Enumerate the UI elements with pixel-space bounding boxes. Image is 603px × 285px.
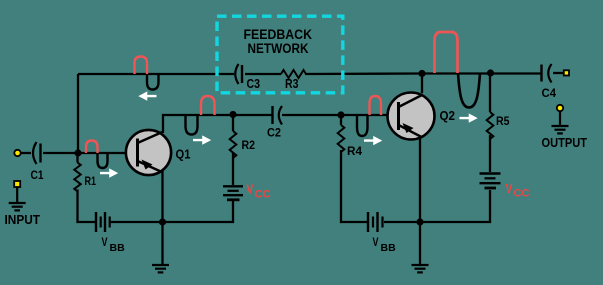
terminal: input lower terminal xyxy=(14,181,20,187)
arrow: signal direction after Q2 xyxy=(460,113,478,122)
waveform: Q1 base signal (red half-cycle) xyxy=(86,141,98,154)
battery VCC stage2 xyxy=(480,174,501,189)
svg-text:CC: CC xyxy=(514,188,530,200)
wire: middle wire Q1 collector to C2 xyxy=(163,115,272,133)
svg-text:INPUT: INPUT xyxy=(5,213,41,227)
waveform: feedback signal (red half-cycle) xyxy=(135,57,148,75)
wire: R5 top vertical from output wire xyxy=(489,73,491,112)
waveform: Q1 output signal (red half-cycle) xyxy=(201,96,215,115)
wire: C4 to output terminal xyxy=(553,72,565,74)
svg-text:Q1: Q1 xyxy=(176,148,191,162)
feedback network dashed box xyxy=(217,16,343,93)
node: R5 junction dot on output wire xyxy=(487,69,494,76)
svg-text:R3: R3 xyxy=(285,77,299,91)
transistor Q2 xyxy=(388,93,435,140)
node: Q2 collector junction dot xyxy=(418,70,425,77)
transistor Q1 xyxy=(126,130,171,175)
svg-text:C1: C1 xyxy=(31,168,44,182)
svg-text:R5: R5 xyxy=(496,114,510,128)
svg-text:V: V xyxy=(247,183,254,197)
svg-text:V: V xyxy=(506,182,513,196)
arrow: signal direction after Q1 xyxy=(193,135,211,144)
resistor R1 xyxy=(74,163,80,192)
wire: R4 bottom down to stage2 bottom rail to VBB2 xyxy=(341,150,368,222)
capacitor C2 xyxy=(273,106,283,125)
battery VCC stage1 xyxy=(223,186,243,200)
ground: input ground xyxy=(9,187,26,210)
battery VBB stage1 xyxy=(96,212,110,232)
waveform: Q2 base signal (black half-cycle) xyxy=(357,115,368,136)
wire: stage1 bottom rail R1 side to VBB xyxy=(78,153,97,222)
svg-text:Q2: Q2 xyxy=(440,109,456,123)
terminal: output upper terminal xyxy=(564,70,569,75)
svg-text:R1: R1 xyxy=(85,176,97,188)
svg-text:FEEDBACK: FEEDBACK xyxy=(244,27,313,42)
node: stage2 emitter-ground junction dot xyxy=(416,218,423,225)
svg-text:V: V xyxy=(373,235,379,249)
capacitor C1 xyxy=(33,142,41,164)
terminal: input upper terminal xyxy=(14,150,20,156)
battery VBB stage2 xyxy=(368,212,383,232)
waveform: Q1 output signal inverted (black half-cycle) xyxy=(186,115,198,135)
waveform: output signal (red half-cycle) xyxy=(435,32,458,73)
arrow: signal direction into Q2 xyxy=(364,136,382,145)
svg-text:R4: R4 xyxy=(347,146,363,158)
node: R2 junction dot on middle wire xyxy=(229,111,236,118)
resistor R3 xyxy=(281,70,306,78)
wire: Q2 collector vertical up to feedback node xyxy=(421,74,423,94)
wire: R4 top vertical from middle wire xyxy=(340,115,342,125)
svg-text:C2: C2 xyxy=(267,126,281,140)
arrow: feedback direction (leftward) xyxy=(138,91,156,100)
ground: output ground xyxy=(552,111,569,133)
svg-text:C4: C4 xyxy=(542,88,557,100)
svg-text:CC: CC xyxy=(255,189,271,201)
arrow: signal direction into Q1 xyxy=(100,168,118,177)
svg-text:V: V xyxy=(102,235,108,249)
svg-text:BB: BB xyxy=(110,242,126,254)
node: R4 junction dot on middle wire xyxy=(337,111,344,118)
ground: stage1 ground xyxy=(152,222,169,272)
wire: left vertical from feedback wire down to input node xyxy=(77,74,79,153)
resistor R2 xyxy=(230,131,237,158)
capacitor C4 xyxy=(542,64,552,83)
wire: stage1 bottom rail VBB to VCC bottom xyxy=(110,201,233,222)
waveform: output signal (black half-cycle) xyxy=(458,73,480,108)
svg-text:C3: C3 xyxy=(247,77,261,91)
waveform: feedback signal (black half-cycle) xyxy=(147,74,159,90)
wire: middle wire C2 to Q2 base xyxy=(282,114,398,116)
wire: feedback top wire from left corner to C3 xyxy=(78,73,234,75)
resistor R4 xyxy=(338,125,345,152)
wire: R5 bottom to VCC2 battery xyxy=(489,135,491,172)
wire: feedback wire R3 to node at Q2 collector xyxy=(305,72,541,75)
wire: input terminal to C1 xyxy=(20,152,31,154)
wire: R2 top vertical xyxy=(232,115,234,132)
resistor R5 xyxy=(487,112,494,139)
wire: input node to Q1 base xyxy=(43,152,137,154)
terminal: output lower terminal xyxy=(557,105,563,111)
node: stage1 emitter-ground junction dot xyxy=(159,218,166,225)
node: input junction dot xyxy=(74,149,81,156)
wire: R2 bottom to VCC battery xyxy=(232,153,234,185)
svg-text:OUTPUT: OUTPUT xyxy=(542,136,588,150)
svg-text:BB: BB xyxy=(381,242,397,254)
wire: feedback wire C3 to R3 xyxy=(245,73,281,75)
svg-text:NETWORK: NETWORK xyxy=(248,41,309,56)
wire: Q2 emitter vertical down to bottom rail xyxy=(419,138,421,222)
svg-text:R2: R2 xyxy=(242,140,256,152)
waveform: Q2 base signal (red half-cycle) xyxy=(370,96,382,115)
capacitor C3 xyxy=(235,64,242,84)
waveform: Q1 base signal (black half-cycle) xyxy=(98,153,108,168)
ground: stage2 ground xyxy=(412,222,429,272)
wire: stage2 bottom rail VBB2 to VCC2 bottom xyxy=(384,190,490,222)
wire: Q1 emitter vertical down to bottom rail xyxy=(161,171,163,222)
